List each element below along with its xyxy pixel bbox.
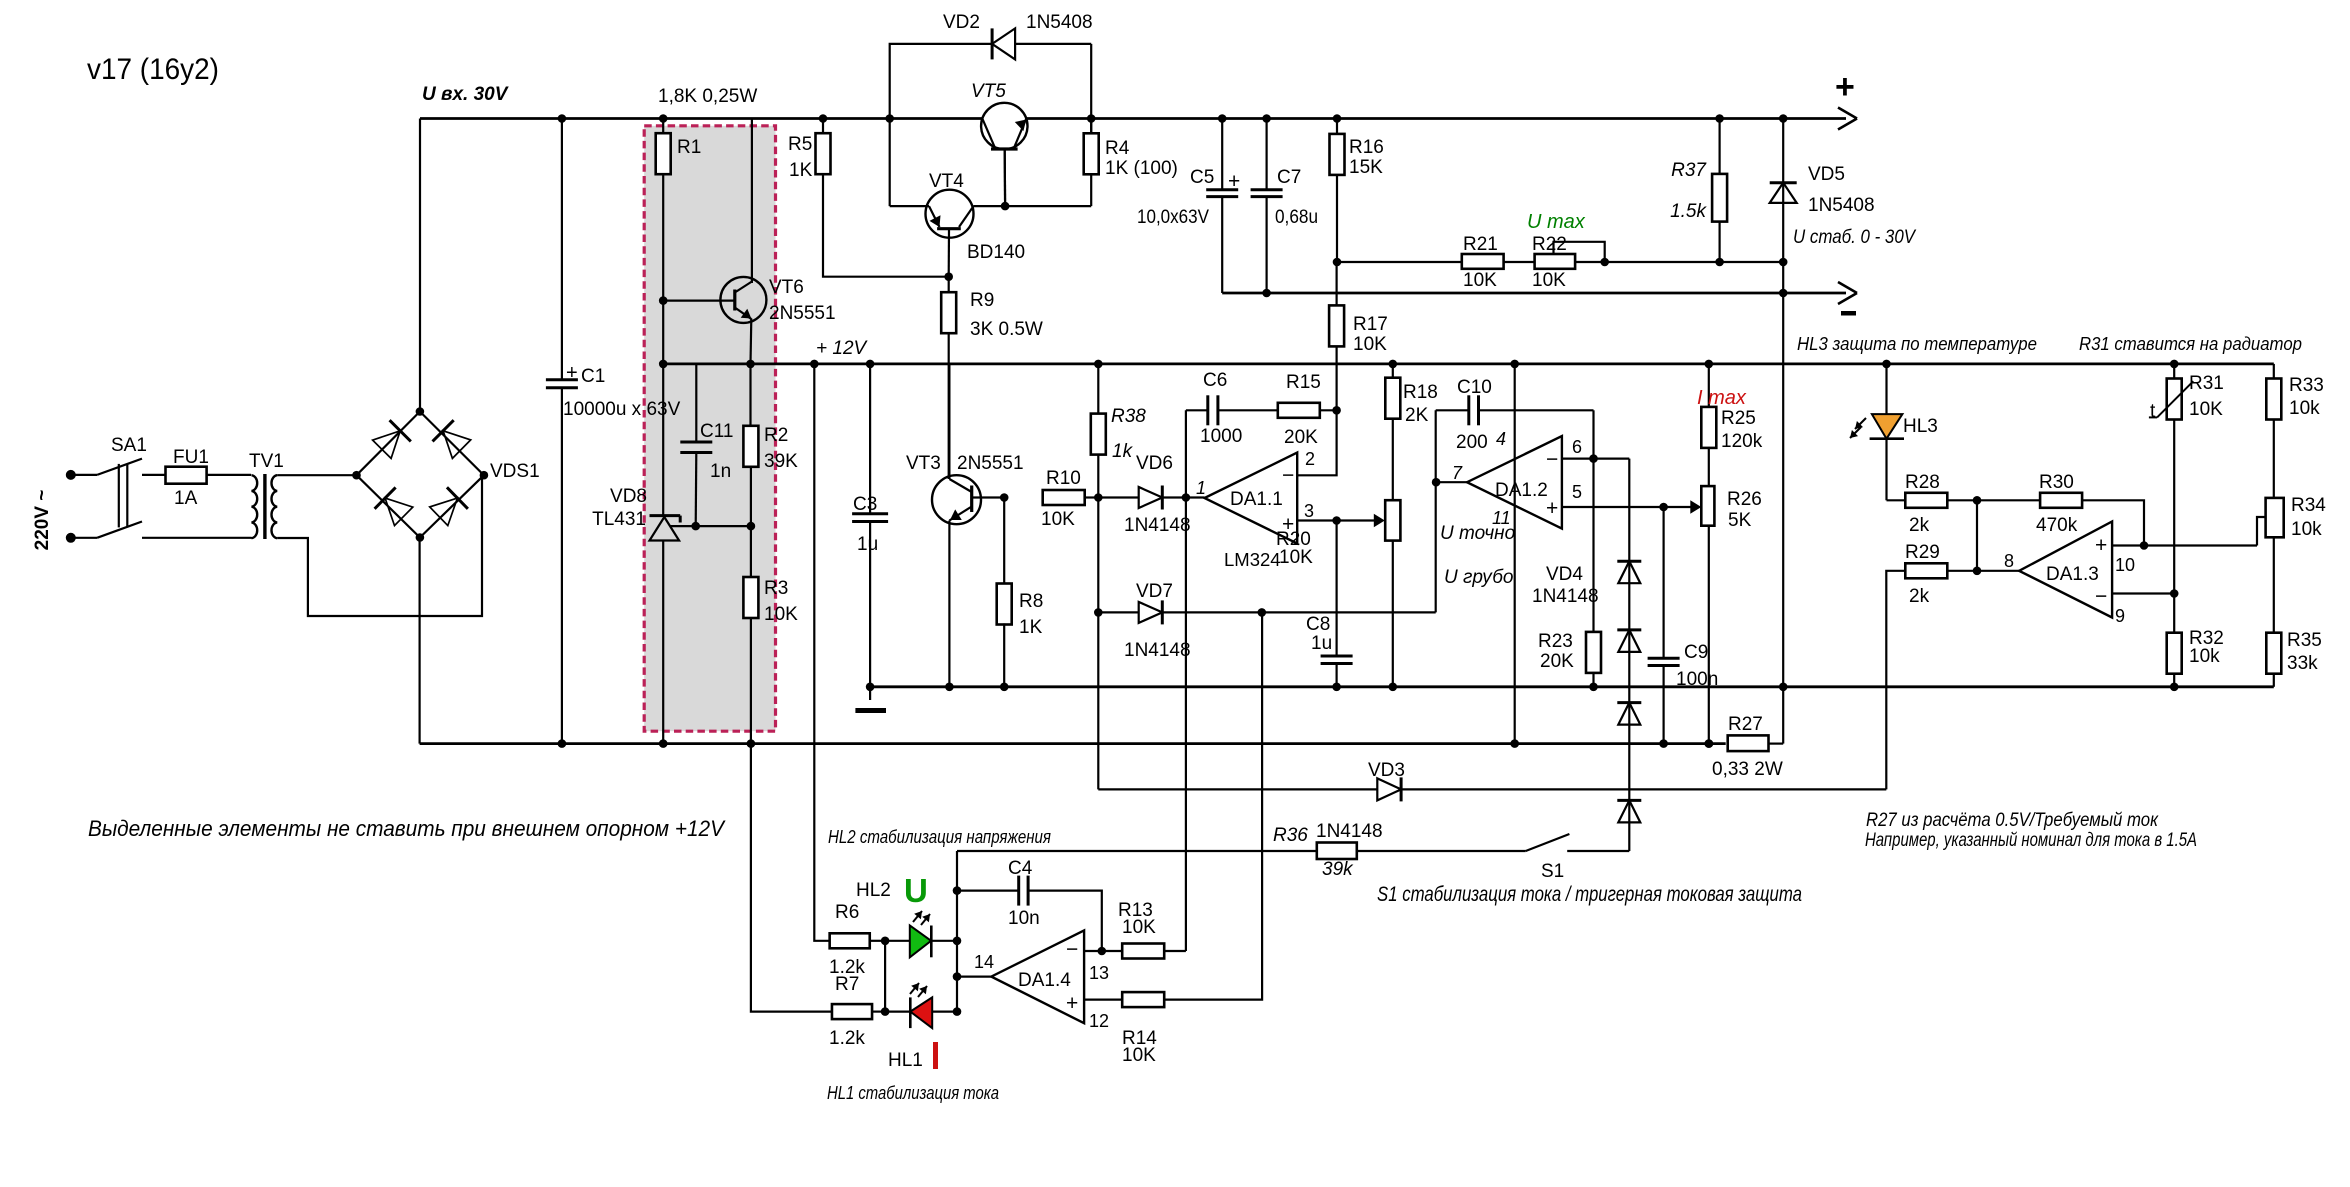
svg-text:2K: 2K — [1405, 405, 1429, 426]
bridge diode bottom-right — [430, 487, 468, 525]
svg-text:C1: C1 — [581, 366, 605, 387]
svg-text:1n: 1n — [710, 461, 731, 482]
svg-text:6: 6 — [1572, 437, 1582, 457]
svg-text:1,8K 0,25W: 1,8K 0,25W — [658, 86, 757, 107]
wire TV1 secondary top to bridge — [277, 474, 355, 476]
transistor VT4 — [890, 171, 1091, 281]
svg-text:R21: R21 — [1463, 234, 1498, 255]
svg-text:2N5551: 2N5551 — [957, 453, 1024, 474]
svg-text:U грубо: U грубо — [1444, 567, 1513, 588]
diode VD2 — [943, 12, 1093, 59]
shaded region: elements omitted with external +12V reference — [644, 126, 775, 731]
wire DA1.2 pin5 — [1562, 500, 1701, 514]
svg-text:DA1.2: DA1.2 — [1495, 480, 1548, 501]
svg-text:VDS1: VDS1 — [490, 461, 540, 482]
svg-text:R7: R7 — [835, 974, 859, 995]
svg-text:1N4148: 1N4148 — [1532, 586, 1599, 607]
svg-text:39K: 39K — [764, 451, 798, 472]
svg-text:120k: 120k — [1721, 431, 1763, 452]
transistor VT6 — [659, 119, 836, 364]
svg-text:10K: 10K — [1279, 547, 1313, 568]
svg-text:10,0x63V: 10,0x63V — [1137, 207, 1209, 228]
wire VD8 below rail — [659, 364, 668, 748]
resistor R29 — [1886, 500, 2019, 789]
svg-text:C10: C10 — [1457, 377, 1492, 398]
svg-text:VD4: VD4 — [1546, 564, 1583, 585]
resistor R13 — [1118, 900, 1186, 959]
svg-text:10k: 10k — [2289, 398, 2320, 419]
label HL1 note — [827, 1082, 999, 1103]
svg-text:R29: R29 — [1905, 542, 1940, 563]
resistor R21 — [1462, 234, 1504, 291]
resistor R17 — [1329, 262, 1388, 410]
label + 12V — [816, 338, 869, 359]
svg-text:HL3 защита по температуре: HL3 защита по температуре — [1797, 333, 2037, 354]
wire top +rail right segment — [1026, 117, 1846, 120]
switch S1 — [1526, 834, 1630, 882]
svg-text:10K: 10K — [1532, 270, 1566, 291]
label R27 note2 — [1865, 830, 2197, 851]
svg-text:R30: R30 — [2039, 472, 2074, 493]
resistor R15 — [1278, 372, 1337, 448]
title v17 — [87, 53, 219, 86]
svg-text:0,33 2W: 0,33 2W — [1712, 759, 1783, 780]
svg-text:VD7: VD7 — [1136, 581, 1173, 602]
fuse FU1 — [166, 447, 252, 509]
diode VD2 loop — [885, 44, 1095, 206]
wire R38 node down to VD7 — [1097, 498, 1099, 613]
svg-text:10K: 10K — [1122, 1045, 1156, 1066]
svg-text:+ 12V: + 12V — [816, 338, 869, 359]
resistor R25 — [1701, 360, 1762, 487]
svg-text:R27 из расчёта 0.5V/Требуемый: R27 из расчёта 0.5V/Требуемый ток — [1866, 810, 2159, 831]
resistor R33 — [2266, 364, 2324, 498]
diode chain VD4 — [1532, 459, 1641, 851]
LED HL1 — [885, 983, 957, 1071]
label U grubo — [1444, 567, 1513, 588]
svg-text:10K: 10K — [2189, 399, 2223, 420]
svg-text:+: + — [1546, 497, 1558, 520]
svg-text:R22: R22 — [1532, 234, 1567, 255]
svg-text:1K: 1K — [789, 160, 813, 181]
svg-text:10K: 10K — [1041, 509, 1075, 530]
svg-text:20K: 20K — [1540, 651, 1574, 672]
svg-text:R28: R28 — [1905, 472, 1940, 493]
svg-text:10K: 10K — [1353, 334, 1387, 355]
svg-text:R26: R26 — [1727, 489, 1762, 510]
resistor R38 — [1091, 360, 1146, 498]
wire DA1.4 pin13 — [1084, 950, 1122, 952]
ground symbol — [855, 683, 886, 711]
svg-text:R6: R6 — [835, 902, 859, 923]
svg-text:12: 12 — [1089, 1011, 1109, 1031]
resistor R3 — [743, 526, 798, 748]
svg-text:R8: R8 — [1019, 591, 1043, 612]
resistor R6 — [810, 360, 889, 978]
svg-text:FU1: FU1 — [173, 447, 209, 468]
svg-text:1N4148: 1N4148 — [1316, 821, 1383, 842]
LED HL2 — [856, 872, 957, 957]
svg-text:VT5: VT5 — [971, 81, 1006, 102]
svg-text:C6: C6 — [1203, 370, 1227, 391]
svg-text:+: + — [1835, 68, 1855, 106]
wire minus rail — [1222, 292, 1846, 295]
svg-text:1N4148: 1N4148 — [1124, 640, 1191, 661]
svg-text:VT6: VT6 — [769, 277, 804, 298]
svg-text:5: 5 — [1572, 482, 1582, 502]
svg-text:220V ~: 220V ~ — [32, 490, 53, 551]
svg-text:2N5551: 2N5551 — [769, 303, 836, 324]
svg-text:C11: C11 — [700, 421, 733, 442]
resistor R4 — [1084, 119, 1178, 207]
label - output — [1841, 311, 1856, 316]
svg-text:1K: 1K — [1019, 617, 1043, 638]
resistor R16 — [1330, 114, 1384, 266]
svg-text:LM324: LM324 — [1224, 549, 1281, 570]
svg-text:I max: I max — [1697, 387, 1747, 409]
svg-text:1k: 1k — [1112, 441, 1134, 462]
label + output — [1835, 68, 1855, 106]
svg-text:10k: 10k — [2189, 646, 2220, 667]
capacitor C9 — [1648, 507, 1719, 748]
wire DA1.3 pin9 — [2112, 589, 2178, 598]
wire VT5 base — [1004, 150, 1007, 206]
op-amp DA1.2 — [1452, 429, 1582, 529]
svg-text:R3: R3 — [764, 578, 788, 599]
svg-text:200: 200 — [1456, 432, 1488, 453]
svg-text:R17: R17 — [1353, 314, 1388, 335]
svg-text:10n: 10n — [1008, 908, 1040, 929]
arrow + output — [1838, 108, 1857, 130]
resistor R30 — [1977, 472, 2148, 550]
capacitor C7 — [1251, 114, 1318, 297]
svg-text:R1: R1 — [677, 137, 701, 158]
capacitor C5 — [1137, 114, 1240, 293]
svg-text:VD5: VD5 — [1808, 164, 1845, 185]
svg-text:+: + — [1066, 992, 1078, 1015]
resistor R28 — [1887, 472, 1982, 536]
svg-text:2: 2 — [1305, 449, 1315, 469]
op-amp DA1.1 — [1196, 449, 1315, 570]
resistor R9 — [941, 277, 1043, 479]
op-amp DA1.3 — [2004, 522, 2135, 627]
svg-text:R37: R37 — [1671, 160, 1707, 181]
svg-text:2k: 2k — [1909, 586, 1930, 607]
bridge outline VDS1 — [352, 407, 539, 542]
svg-text:470k: 470k — [2036, 515, 2078, 536]
TL431 VD8 — [592, 486, 680, 541]
wire DA1.2 supply vertical pins 4 11 — [1510, 360, 1519, 748]
bridge diode top-right — [433, 420, 471, 458]
label U stab — [1793, 227, 1917, 248]
potentiometer R20 — [1276, 500, 1400, 691]
capacitor C8 — [1306, 521, 1353, 692]
wire SA1 to TV1 primary bottom — [142, 537, 252, 539]
potentiometer R34 — [2266, 495, 2327, 540]
capacitor C6 — [1186, 370, 1279, 447]
svg-text:15K: 15K — [1349, 157, 1383, 178]
svg-text:R16: R16 — [1349, 137, 1384, 158]
svg-text:1A: 1A — [174, 488, 198, 509]
wire ground rail — [870, 685, 2274, 688]
svg-text:TL431: TL431 — [592, 509, 646, 530]
resistor R23 — [1538, 459, 1601, 691]
label HL2 note — [828, 826, 1051, 847]
svg-text:8: 8 — [2004, 551, 2014, 571]
svg-text:TV1: TV1 — [249, 451, 284, 472]
svg-text:1N5408: 1N5408 — [1808, 195, 1875, 216]
svg-text:1u: 1u — [1311, 633, 1332, 654]
wire bridge bottom to bottom rail — [419, 538, 421, 744]
svg-text:10k: 10k — [2291, 519, 2322, 540]
svg-text:2k: 2k — [1909, 515, 1930, 536]
wire bottom rail — [420, 742, 1726, 745]
svg-text:14: 14 — [974, 952, 994, 972]
svg-text:1N4148: 1N4148 — [1124, 515, 1191, 536]
wire DA1.1 pin3 — [1297, 514, 1385, 528]
svg-text:R36: R36 — [1273, 825, 1308, 846]
svg-text:−: − — [1282, 464, 1294, 487]
svg-text:R31: R31 — [2189, 373, 2224, 394]
svg-text:1N5408: 1N5408 — [1026, 12, 1093, 33]
wire +12V rail — [663, 362, 2274, 365]
svg-text:R4: R4 — [1105, 138, 1130, 159]
wire bottom rail right of R27 — [1769, 687, 1783, 744]
diode VD5 — [1770, 114, 1875, 691]
svg-text:U стаб. 0 - 30V: U стаб. 0 - 30V — [1793, 227, 1917, 248]
svg-text:−: − — [1546, 448, 1558, 471]
svg-text:C9: C9 — [1684, 642, 1708, 663]
resistor R8 — [997, 498, 1044, 692]
svg-text:10K: 10K — [1122, 917, 1156, 938]
svg-text:R18: R18 — [1403, 382, 1438, 403]
svg-text:1K (100): 1K (100) — [1105, 158, 1178, 179]
wire DA1.2 pin7 output — [1432, 410, 1467, 612]
label R31 radiator — [2079, 333, 2302, 354]
svg-text:C5: C5 — [1190, 167, 1214, 188]
svg-text:1u: 1u — [857, 534, 878, 555]
svg-text:VD6: VD6 — [1136, 453, 1173, 474]
label U max — [1527, 211, 1586, 233]
resistor R2 — [743, 360, 798, 526]
resistor R1 — [656, 114, 702, 368]
svg-text:HL1 стабилизация тока: HL1 стабилизация тока — [827, 1082, 999, 1103]
svg-text:R27: R27 — [1728, 714, 1763, 735]
svg-text:R35: R35 — [2287, 630, 2322, 651]
potentiometer R26 — [1701, 486, 1762, 748]
svg-text:100n: 100n — [1676, 669, 1718, 690]
wire DA1.4 pin12 — [1084, 998, 1122, 1000]
svg-text:Например, указанный номинал дл: Например, указанный номинал для тока в 1… — [1865, 830, 2197, 851]
wire top +rail left segment — [420, 117, 982, 120]
label omitted note — [88, 816, 726, 841]
transformer TV1 — [249, 451, 284, 539]
svg-text:10: 10 — [2115, 555, 2135, 575]
svg-text:C4: C4 — [1008, 858, 1033, 879]
svg-text:3K 0.5W: 3K 0.5W — [970, 319, 1043, 340]
op-amp DA1.4 — [957, 930, 1109, 1031]
wire DA1.1 pin2 — [1297, 406, 1341, 475]
svg-text:3: 3 — [1304, 501, 1314, 521]
svg-text:39k: 39k — [1322, 859, 1354, 880]
svg-text:33k: 33k — [2287, 653, 2318, 674]
resistor R7 — [751, 744, 889, 1049]
label R27 note1 — [1866, 810, 2159, 831]
svg-text:R38: R38 — [1111, 406, 1146, 427]
svg-text:+: + — [1228, 170, 1240, 193]
svg-text:5K: 5K — [1728, 510, 1752, 531]
resistor R5 — [788, 114, 949, 277]
svg-text:1000: 1000 — [1200, 426, 1242, 447]
resistor R32 — [2167, 594, 2224, 692]
wire HL node vertical — [953, 851, 962, 1016]
thermistor R31 — [2149, 360, 2224, 594]
transistor VT3 — [906, 364, 1024, 691]
svg-text:VT3: VT3 — [906, 453, 941, 474]
diode VD7 — [1094, 581, 1436, 661]
svg-text:13: 13 — [1089, 963, 1109, 983]
svg-text:Выделенные элементы не ставить: Выделенные элементы не ставить при внешн… — [88, 816, 726, 841]
svg-text:U точно: U точно — [1440, 523, 1515, 544]
capacitor C3 — [852, 360, 888, 700]
resistor R14 — [1122, 612, 1262, 1066]
label I max — [1697, 387, 1747, 409]
capacitor C11 — [680, 364, 733, 526]
label HL3 protection — [1797, 333, 2037, 354]
svg-text:R33: R33 — [2289, 375, 2324, 396]
resistor R10 — [1041, 468, 1103, 530]
wire SA1 to FU1 — [142, 474, 166, 476]
terminal input top — [66, 470, 76, 480]
svg-text:R10: R10 — [1046, 468, 1081, 489]
svg-text:VT4: VT4 — [929, 171, 964, 192]
switch SA1 — [71, 435, 147, 538]
svg-text:S1: S1 — [1541, 861, 1564, 882]
svg-text:C3: C3 — [853, 494, 877, 515]
svg-text:S1 стабилизация тока / тригерн: S1 стабилизация тока / тригерная токовая… — [1377, 883, 1802, 906]
capacitor C4 — [957, 858, 1106, 955]
wire R36 S1 line — [957, 850, 1526, 852]
svg-text:t: t — [2150, 401, 2156, 422]
wire DA1.2 pin6 — [1562, 454, 1629, 463]
capacitor C10 — [1436, 377, 1594, 459]
transistor VT5 — [971, 81, 1028, 206]
svg-text:R2: R2 — [764, 425, 788, 446]
svg-text:U: U — [904, 872, 928, 909]
svg-text:R5: R5 — [788, 134, 812, 155]
wire VD3 line — [1098, 612, 1886, 789]
potentiometer R22 — [1532, 234, 1605, 291]
resistor R37 — [1670, 114, 1727, 262]
svg-text:HL2 стабилизация напряжения: HL2 стабилизация напряжения — [828, 826, 1051, 847]
svg-text:SA1: SA1 — [111, 435, 147, 456]
svg-text:7: 7 — [1452, 463, 1463, 483]
svg-text:1: 1 — [1196, 478, 1206, 498]
svg-text:C7: C7 — [1277, 167, 1301, 188]
svg-text:9: 9 — [2115, 606, 2125, 626]
svg-text:DA1.3: DA1.3 — [2046, 564, 2099, 585]
bridge diode bottom-left — [375, 487, 413, 525]
svg-text:+: + — [566, 362, 578, 384]
LED HL3 — [1850, 360, 1938, 501]
resistor R27 — [1705, 714, 1783, 780]
resistor R36 — [1273, 825, 1357, 880]
svg-text:R34: R34 — [2291, 495, 2326, 516]
label S1 note — [1377, 883, 1802, 906]
resistor R35 — [2266, 537, 2322, 687]
svg-text:VD8: VD8 — [610, 486, 647, 507]
svg-text:DA1.1: DA1.1 — [1230, 489, 1283, 510]
svg-text:−: − — [1066, 938, 1078, 961]
svg-text:R25: R25 — [1721, 408, 1756, 429]
svg-text:R15: R15 — [1286, 372, 1321, 393]
svg-text:1.2k: 1.2k — [829, 1028, 865, 1049]
capacitor C1 — [546, 114, 681, 748]
svg-text:4: 4 — [1496, 429, 1506, 449]
svg-text:U max: U max — [1527, 211, 1586, 233]
svg-text:VD3: VD3 — [1368, 760, 1405, 781]
svg-text:20K: 20K — [1284, 427, 1318, 448]
wire TV1 secondary bottom loop — [277, 475, 482, 616]
svg-text:HL1: HL1 — [888, 1050, 923, 1071]
label U tochno — [1440, 523, 1515, 544]
svg-text:0,68u: 0,68u — [1275, 207, 1318, 228]
wire bridge top to rail — [419, 119, 421, 413]
svg-text:v17 (16y2): v17 (16y2) — [87, 53, 219, 86]
svg-text:R31 ставится на радиатор: R31 ставится на радиатор — [2079, 333, 2302, 354]
diode VD6 — [1098, 453, 1204, 536]
svg-text:BD140: BD140 — [967, 242, 1025, 263]
label 220V~ — [32, 490, 53, 551]
svg-text:HL2: HL2 — [856, 880, 891, 901]
svg-text:10K: 10K — [1463, 270, 1497, 291]
svg-text:C8: C8 — [1306, 614, 1330, 635]
svg-text:HL3: HL3 — [1903, 416, 1938, 437]
terminal input bottom — [66, 533, 76, 543]
svg-text:VD2: VD2 — [943, 12, 980, 33]
svg-text:1.5k: 1.5k — [1670, 201, 1707, 222]
svg-text:R9: R9 — [970, 290, 994, 311]
wire U max line — [1337, 258, 1787, 267]
svg-text:R23: R23 — [1538, 631, 1573, 652]
svg-text:10K: 10K — [764, 604, 798, 625]
svg-text:+: + — [2095, 534, 2107, 557]
diode VD3 — [1316, 760, 1405, 842]
wire DA1.3 pin10 — [2112, 517, 2266, 546]
wire feedback vertical DA1.1 — [1185, 410, 1187, 951]
arrow - output — [1838, 282, 1857, 304]
svg-text:−: − — [2095, 585, 2107, 608]
resistor R18 — [1385, 360, 1438, 501]
label U vx 30V — [422, 84, 509, 105]
bridge diode top-left — [373, 420, 411, 458]
label 1,8K 0,25W — [658, 86, 757, 107]
svg-text:U вх. 30V: U вх. 30V — [422, 84, 509, 105]
svg-text:DA1.4: DA1.4 — [1018, 970, 1071, 991]
wire TL431 ref to R2 — [670, 522, 755, 531]
